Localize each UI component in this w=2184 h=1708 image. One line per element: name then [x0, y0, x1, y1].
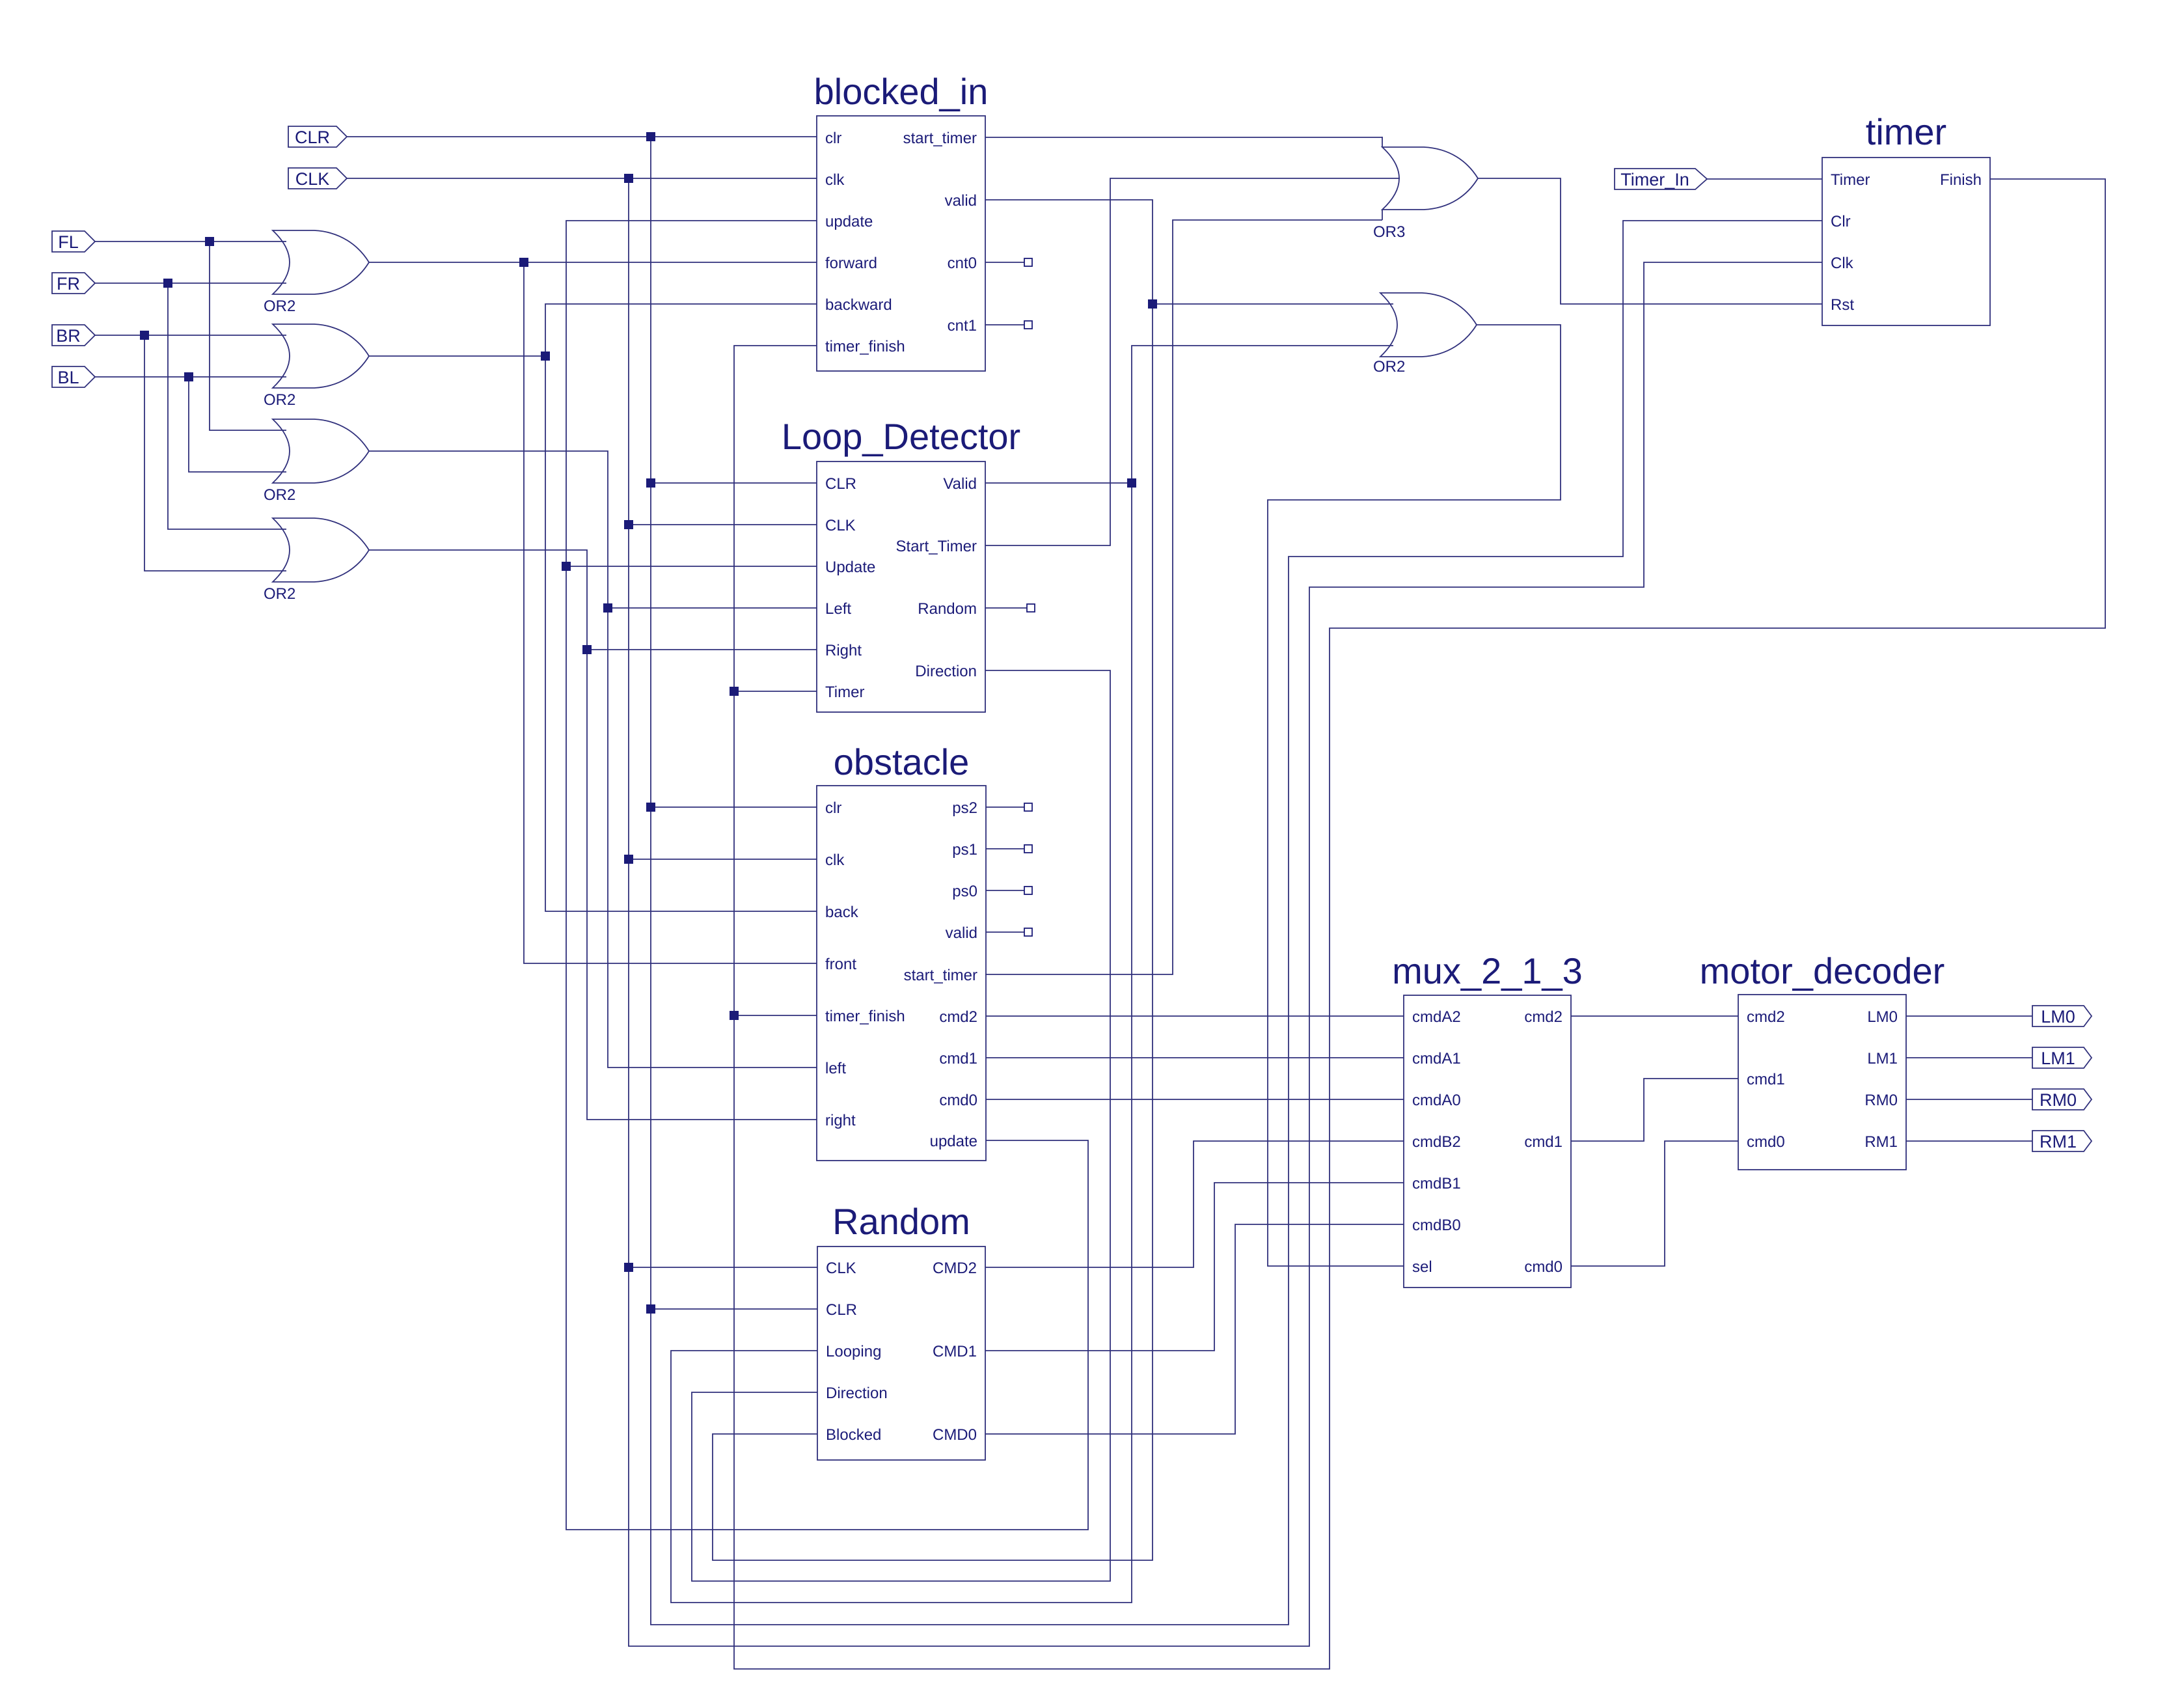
svg-text:Timer: Timer: [825, 683, 864, 701]
svg-text:CLK: CLK: [826, 1260, 856, 1277]
block timer: [1822, 111, 1990, 325]
block blocked_in: [814, 71, 989, 371]
wire sel net: OR2 G6 output to mux.sel: [1268, 325, 1561, 1266]
OR gate G2 (OR2): [264, 324, 369, 409]
junction CLR trunk tap: [646, 132, 655, 141]
input port CLK: [288, 168, 347, 189]
svg-text:LM0: LM0: [2041, 1007, 2075, 1026]
svg-text:cmd2: cmd2: [1747, 1008, 1785, 1026]
svg-text:Timer: Timer: [1831, 171, 1870, 189]
wire front net: OR2 G1 out to blocked_in.forward: [369, 262, 817, 263]
wire start_timer2: Loop_Detector.Start_Timer to OR3 input2: [985, 178, 1400, 545]
wire CLR net branch Random.CLR: [651, 1308, 817, 1310]
wire loop_valid down to Random.Looping: [671, 483, 1132, 1603]
svg-text:right: right: [825, 1112, 856, 1129]
unconnected pin marker Loop_Detector.Random: [985, 604, 1035, 612]
wire cmdA2 net: obstacle.cmd2 to mux.cmdA2: [986, 1015, 1404, 1017]
svg-text:update: update: [930, 1133, 977, 1150]
wire blocked_valid branch to OR2 G6 input1: [1153, 303, 1393, 305]
svg-text:clr: clr: [825, 799, 841, 817]
block Random: [817, 1201, 985, 1460]
svg-text:cmd1: cmd1: [1747, 1071, 1785, 1088]
svg-text:ps2: ps2: [952, 799, 977, 817]
block obstacle: [817, 741, 986, 1161]
unconnected pin marker obstacle.ps0: [986, 887, 1032, 894]
block mux_2_1_3: [1392, 950, 1583, 1288]
svg-text:valid: valid: [945, 192, 977, 210]
wire LM1 net: [1906, 1057, 2032, 1058]
wire front net branch to obstacle.front: [524, 262, 817, 963]
input port BR: [52, 325, 95, 346]
svg-text:CLR: CLR: [825, 475, 856, 493]
wire start_timer1: blocked_in.start_timer to OR3 input1: [985, 137, 1382, 138]
wire CLK net branch Loop_Detector.CLK: [629, 524, 817, 525]
unconnected pin marker obstacle.valid: [986, 928, 1032, 936]
wire timer_finish branch Loop_Detector.Timer: [734, 691, 817, 692]
wire timer_finish branch obstacle.timer_finish: [734, 1015, 817, 1016]
svg-text:cmdA0: cmdA0: [1412, 1092, 1461, 1109]
svg-text:obstacle: obstacle: [834, 741, 970, 782]
svg-text:BL: BL: [57, 368, 79, 387]
svg-text:BR: BR: [56, 326, 81, 346]
input port Timer_In: [1615, 169, 1707, 189]
svg-text:back: back: [825, 903, 859, 921]
svg-text:clk: clk: [825, 851, 845, 869]
junction CLR at obstacle.clr: [646, 803, 655, 812]
junction left at Loop_Detector.Left: [603, 603, 612, 613]
svg-text:RM0: RM0: [1864, 1092, 1898, 1109]
svg-text:OR2: OR2: [1373, 358, 1405, 376]
junction update at Loop_Detector.Update: [562, 562, 571, 571]
junction blocked_valid at OR2 G6 input1: [1148, 299, 1157, 309]
svg-text:cmdA2: cmdA2: [1412, 1008, 1461, 1026]
wire CLR net branch Loop_Detector.CLR: [651, 482, 817, 484]
svg-text:Random: Random: [918, 600, 977, 618]
svg-text:clr: clr: [825, 130, 841, 147]
wire left net: OR2 G3 out to trunk: [369, 451, 817, 1067]
wire Direction net: Loop_Detector.Direction to Random.Direction: [692, 670, 1110, 1581]
svg-text:CMD2: CMD2: [933, 1260, 977, 1277]
junction back branch tap: [541, 351, 550, 361]
svg-text:CLK: CLK: [295, 169, 330, 189]
svg-text:cmd1: cmd1: [1524, 1133, 1563, 1151]
unconnected pin marker obstacle.ps1: [986, 845, 1032, 853]
unconnected pin marker blocked_in.cnt0: [985, 258, 1032, 266]
input port FR: [52, 273, 95, 294]
wire RM0 net: [1906, 1099, 2032, 1100]
unconnected pin marker blocked_in.cnt1: [985, 321, 1032, 329]
wire CLR net trunk vertical + branches: [651, 137, 1822, 1625]
wire LM0 net: [1906, 1015, 2032, 1017]
svg-text:left: left: [825, 1060, 846, 1077]
svg-text:cmd2: cmd2: [939, 1008, 977, 1026]
svg-text:timer: timer: [1866, 111, 1946, 152]
svg-text:timer_finish: timer_finish: [825, 1008, 905, 1025]
junction CLK at obstacle.clk: [624, 855, 633, 864]
output port RM1: [2032, 1131, 2092, 1151]
svg-text:timer_finish: timer_finish: [825, 338, 905, 355]
svg-text:motor_decoder: motor_decoder: [1700, 950, 1945, 991]
svg-text:Left: Left: [825, 600, 851, 618]
OR gate G6 (OR2): [1373, 293, 1477, 376]
svg-text:FL: FL: [58, 232, 79, 252]
svg-text:cmdB1: cmdB1: [1412, 1175, 1461, 1192]
junction BR branch tap: [140, 331, 149, 340]
wire update net: obstacle.update to blocked_in.update: [566, 221, 1088, 1530]
output port RM0: [2032, 1089, 2092, 1110]
svg-text:OR2: OR2: [264, 585, 295, 603]
svg-text:start_timer: start_timer: [903, 130, 977, 147]
svg-text:OR2: OR2: [264, 391, 295, 409]
wire BR net branch to OR2 G4 input2: [144, 335, 286, 571]
wire cmdA1 net: obstacle.cmd1 to mux.cmdA1: [986, 1057, 1404, 1058]
OR gate G1 (OR2): [264, 230, 369, 315]
wire CLK net branch Random.CLK: [629, 1267, 817, 1268]
svg-text:cmd2: cmd2: [1524, 1008, 1563, 1026]
svg-text:Loop_Detector: Loop_Detector: [782, 416, 1020, 457]
junction CLR at Random.CLR: [646, 1304, 655, 1314]
junction BL branch tap: [184, 372, 193, 381]
wire CLR net branch obstacle.clr: [651, 806, 817, 808]
junction CLR at Loop_Detector.CLR: [646, 478, 655, 488]
output port LM1: [2032, 1047, 2092, 1068]
unconnected pin marker obstacle.ps2: [986, 803, 1032, 811]
svg-text:cnt0: cnt0: [948, 255, 977, 272]
wire CLK net: port to blocked_in.clk: [347, 178, 817, 179]
svg-text:sel: sel: [1412, 1258, 1432, 1276]
svg-text:CLK: CLK: [825, 517, 856, 534]
svg-text:Direction: Direction: [915, 663, 977, 680]
svg-text:Direction: Direction: [826, 1384, 888, 1402]
wire FL net: port to OR2 G1 input1: [95, 241, 286, 242]
svg-text:Timer_In: Timer_In: [1620, 170, 1689, 189]
junction front branch tap: [519, 258, 528, 267]
junction CLK trunk tap: [624, 174, 633, 183]
svg-text:LM1: LM1: [1867, 1050, 1898, 1067]
svg-text:cmd0: cmd0: [1747, 1133, 1785, 1151]
wire update net branch Loop_Detector.Update: [566, 566, 817, 567]
input port CLR: [288, 126, 347, 147]
wire back net down to obstacle.back: [545, 356, 817, 911]
svg-text:Random: Random: [832, 1201, 970, 1242]
svg-text:CLR: CLR: [295, 128, 330, 147]
svg-text:CLR: CLR: [826, 1301, 857, 1319]
wire timer_finish net: timer.Finish loop: [734, 179, 2105, 1669]
svg-text:clk: clk: [825, 171, 845, 189]
wire cmdB2 net: Random.CMD2 to mux.cmdB2: [985, 1141, 1404, 1267]
block motor_decoder: [1700, 950, 1945, 1170]
svg-text:Finish: Finish: [1940, 171, 1982, 189]
junction CLK at Random.CLK: [624, 1263, 633, 1272]
input port FL: [52, 231, 95, 252]
wire BL net branch to OR2 G3 input2: [189, 377, 286, 472]
svg-text:Clk: Clk: [1831, 255, 1854, 272]
svg-text:OR2: OR2: [264, 486, 295, 504]
wire right net branch Loop_Detector.Right: [587, 649, 817, 650]
wire Timer_In net: port to timer.Timer: [1707, 178, 1822, 180]
svg-text:FR: FR: [57, 274, 80, 294]
svg-text:blocked_in: blocked_in: [814, 71, 989, 112]
wire cmdB1 net: Random.CMD1 to mux.cmdB1: [985, 1183, 1404, 1351]
svg-text:cnt1: cnt1: [948, 317, 977, 335]
svg-text:RM1: RM1: [1864, 1133, 1898, 1151]
svg-text:RM0: RM0: [2040, 1090, 2077, 1110]
svg-text:RM1: RM1: [2040, 1132, 2077, 1151]
svg-text:Right: Right: [825, 642, 862, 659]
wire cmd1 net: mux.cmd1 to motor_decoder.cmd1: [1571, 1079, 1738, 1141]
wire BL net: port to OR2 G2 input2: [95, 376, 286, 378]
svg-text:mux_2_1_3: mux_2_1_3: [1392, 950, 1583, 991]
wire cmd0 net: mux.cmd0 to motor_decoder.cmd0: [1571, 1141, 1738, 1266]
svg-text:cmdB0: cmdB0: [1412, 1217, 1461, 1234]
svg-text:Clr: Clr: [1831, 213, 1851, 230]
wire right net: OR2 G4 out to trunk: [369, 550, 817, 1120]
svg-text:LM1: LM1: [2041, 1049, 2075, 1068]
svg-text:Valid: Valid: [943, 475, 977, 493]
svg-text:CMD0: CMD0: [933, 1426, 977, 1444]
svg-text:backward: backward: [825, 296, 892, 314]
svg-text:LM0: LM0: [1867, 1008, 1898, 1026]
block Loop_Detector: [782, 416, 1020, 712]
svg-text:Start_Timer: Start_Timer: [896, 538, 977, 555]
svg-text:valid: valid: [946, 924, 977, 942]
wire OR3 output to timer.Rst: [1478, 178, 1822, 304]
svg-text:CMD1: CMD1: [933, 1343, 977, 1360]
wire back net: OR2 G2 out to junction: [369, 355, 545, 357]
svg-text:front: front: [825, 956, 856, 973]
svg-text:update: update: [825, 213, 873, 230]
svg-text:ps1: ps1: [952, 841, 977, 859]
svg-text:cmdB2: cmdB2: [1412, 1133, 1461, 1151]
junction FL branch tap: [205, 237, 214, 246]
OR gate G4 (OR2): [264, 518, 369, 603]
wire FL net branch to OR2 G3 input1: [210, 241, 286, 430]
wire back net up to blocked_in.backward: [545, 304, 817, 356]
svg-text:Rst: Rst: [1831, 296, 1854, 314]
wire cmd2 net: mux.cmd2 to motor_decoder.cmd2: [1571, 1015, 1738, 1017]
wire loop_valid net: Loop_Detector.Valid trunk: [985, 482, 1132, 484]
wire CLR net: port to blocked_in.clr: [347, 136, 817, 137]
wire cmdA0 net: obstacle.cmd0 to mux.cmdA0: [986, 1099, 1404, 1100]
svg-text:cmd0: cmd0: [1524, 1258, 1563, 1276]
wire RM1 net: [1906, 1140, 2032, 1142]
wire blocked_valid net: blocked_in.valid down: [713, 200, 1153, 1560]
wire loop_valid up to OR2 G6 input2: [1132, 346, 1393, 483]
OR gate G5 (OR3): [1373, 137, 1478, 241]
junction timer_finish at Loop_Detector.Timer: [730, 687, 739, 696]
OR gate G3 (OR2): [264, 419, 369, 504]
wire start_timer3: obstacle.start_timer to OR3 input3: [985, 220, 1382, 974]
junction timer_finish at obstacle.timer_finish: [730, 1011, 739, 1020]
wire cmdB0 net: Random.CMD0 to mux.cmdB0: [985, 1224, 1404, 1434]
svg-text:ps0: ps0: [952, 883, 977, 900]
svg-text:cmd1: cmd1: [939, 1050, 977, 1067]
wire BR net: port to OR2 G2 input1: [95, 335, 286, 336]
junction CLK at Loop_Detector.CLK: [624, 520, 633, 529]
svg-text:cmd0: cmd0: [939, 1092, 977, 1109]
junction FR branch tap: [163, 279, 172, 288]
svg-text:cmdA1: cmdA1: [1412, 1050, 1461, 1067]
output port LM0: [2032, 1006, 2092, 1026]
junction right at Loop_Detector.Right: [582, 645, 592, 654]
svg-text:OR2: OR2: [264, 297, 295, 315]
svg-text:Looping: Looping: [826, 1343, 881, 1360]
wire CLK net trunk vertical + branches: [629, 178, 1822, 1646]
svg-text:Blocked: Blocked: [826, 1426, 881, 1444]
input port BL: [52, 366, 95, 387]
svg-text:forward: forward: [825, 255, 877, 272]
wire left net branch Loop_Detector.Left: [608, 607, 817, 609]
junction loop_valid tap: [1127, 478, 1136, 488]
wire FR net branch to OR2 G4 input1: [168, 283, 286, 529]
svg-text:Update: Update: [825, 558, 875, 576]
svg-text:OR3: OR3: [1373, 223, 1405, 241]
wire CLK net branch obstacle.clk: [629, 859, 817, 860]
svg-text:start_timer: start_timer: [904, 967, 977, 984]
wire FR net: port to OR2 G1 input2: [95, 282, 286, 284]
